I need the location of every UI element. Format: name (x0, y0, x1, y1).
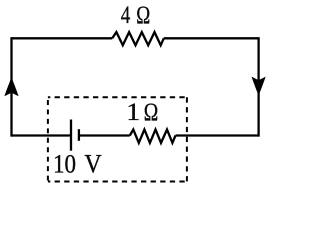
svg-text:4: 4 (121, 2, 131, 29)
resistor R1 4-ohm zigzag (112, 32, 164, 45)
battery V1 short plate (78, 129, 80, 141)
current arrow up on left wire (4, 77, 18, 96)
svg-text:1: 1 (126, 99, 140, 126)
svg-text:10: 10 (53, 149, 76, 178)
wire: battery to 1-ohm resistor (79, 134, 130, 136)
wire: top-right and right side down (164, 38, 259, 136)
battery V1 long plate (70, 120, 72, 151)
svg-text:Ω: Ω (144, 99, 159, 126)
wire: bottom left from left wire to battery (12, 134, 71, 136)
svg-text:Ω: Ω (136, 2, 150, 29)
wire: bottom right from 1-ohm resistor to right wire (176, 134, 259, 136)
current arrow down on right wire (252, 77, 266, 96)
dashed box around battery and 1-ohm resistor (48, 97, 187, 181)
resistor R2 1-ohm zigzag (130, 130, 176, 143)
svg-text:V: V (84, 149, 102, 178)
wire: top-left segment to 4-ohm resistor (12, 38, 113, 136)
